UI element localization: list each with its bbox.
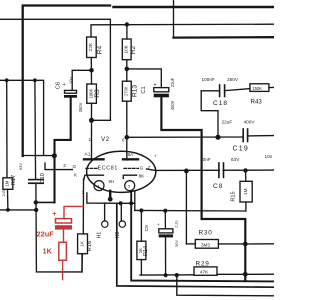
wire: link anode1 to y19 rail [92,119,111,121]
resistor R3 [87,84,97,103]
wire: thick C6-bottom zigzag to grid node [55,98,71,203]
capacitor C1 plate bottom (solid) [154,94,169,98]
wire: R17 bottom lead [7,189,9,210]
svg-text:1K: 1K [43,247,53,256]
white gap for C8 [220,168,222,173]
svg-text:100K: 100K [88,88,93,98]
terminal H8 lead [120,203,122,221]
wire: node line to right edge [245,243,274,245]
cathode1 lead to R16 [82,179,84,234]
svg-text:R15: R15 [230,191,236,201]
wire: thick top-left L rail [23,6,110,157]
svg-text:10n: 10n [265,154,273,159]
resistor R13 [122,81,131,101]
wire: thick top-right rail [114,6,275,8]
svg-text:100nF: 100nF [202,77,215,82]
red wire cap to resistor [63,230,65,243]
resistor R29 [194,267,217,275]
svg-text:H8: H8 [115,232,121,239]
heater circle pin4 [94,181,104,191]
svg-text:150K: 150K [252,86,262,91]
svg-text:1M: 1M [5,180,10,186]
resistor R2 [122,39,131,60]
terminal H8 circle [119,221,125,227]
output line 1 (anode2) [127,136,243,138]
capacitor C8 plate left [218,163,220,177]
svg-text:+: + [154,83,157,89]
svg-text:270K: 270K [124,86,129,96]
capacitor C9 plate bottom (solid) [159,234,173,237]
wire: R30 left lead [186,243,195,245]
node dot C9 [163,209,167,213]
node dot output1 [215,135,220,140]
svg-text:8K: 8K [139,173,146,178]
svg-text:47K: 47K [200,270,209,275]
red capacitor 22uF plate top [56,219,72,223]
grid G2 dashed [124,167,139,169]
svg-text:R16: R16 [87,241,93,252]
svg-text:22uF: 22uF [222,119,233,124]
wire: R29 right lead [217,273,245,275]
svg-text:C10: C10 [40,173,46,184]
wire: branch to C6 [72,70,91,90]
wire: R13 to anode2 [126,101,128,160]
grid G1 dashed [86,167,99,169]
svg-text:+: + [63,82,66,88]
node dot input/feedback junction [52,153,57,158]
anode A1 plate bar [84,158,104,160]
resistor R30 [195,240,218,249]
terminal H1 lead [104,203,106,221]
svg-text:50V: 50V [175,240,179,247]
svg-text:1: 1 [89,137,92,142]
wire: thick C1 bottom zigzag down to bottom rail [161,98,245,281]
node dot output2 left [184,169,189,174]
resistor R14 [137,241,146,259]
anode A2 plate bar [123,158,138,160]
node dot on left rail [5,78,9,82]
wire: thick rail y37.6 [174,36,275,39]
svg-text:8A: 8A [128,152,135,158]
cathode K2 [123,175,136,178]
wire: R4 to R3 lead [90,58,92,85]
svg-text:63V: 63V [18,163,23,170]
heater wiring line below tube [87,193,135,203]
svg-text:22K: 22K [88,42,94,51]
svg-text:R17: R17 [11,175,17,185]
svg-text:ECC81: ECC81 [98,165,119,171]
wire: cathode2 node line [135,209,246,212]
red capacitor 22uF plate bottom (solid) [55,225,72,229]
svg-text:R13: R13 [132,85,139,97]
svg-text:C18: C18 [213,100,228,107]
node dot R2/R13/C1 junction [125,67,130,72]
svg-text:R43: R43 [251,99,263,106]
wire: Z-link from output1 up to C18 [201,91,218,137]
wire: rail to R2 [126,25,128,40]
svg-text:350V: 350V [78,102,83,112]
svg-text:3M3: 3M3 [201,242,210,247]
node dot R29 right [243,272,248,277]
svg-text:R14: R14 [143,246,149,256]
terminal H1 circle [102,221,108,227]
wire: output2 down to R30 [185,171,187,244]
wire: thin supply rail y24.7 [91,24,274,37]
svg-text:+: + [52,209,57,218]
wire: vertical x6.7 rail to R17 [6,80,8,178]
node dot C9 bottom [164,273,168,277]
wire: R43 to right edge [269,86,274,88]
heater stub blob [108,197,113,202]
node dot on left rail at C10 column [33,78,37,82]
node dot output2 right [243,168,247,172]
wire: C18 right to R43 [225,89,250,91]
wire: K2 lead down [134,191,136,211]
node dot H8 [119,201,123,205]
capacitor C10 top lead [34,155,36,178]
wire: R3 to anode1 [91,103,93,159]
output line 2 (grid2) [147,169,275,171]
node dot anode2 / output1 [125,135,130,140]
svg-text:H1: H1 [97,232,103,239]
svg-text:G: G [73,164,77,169]
svg-text:+: + [154,155,157,160]
tube V2 envelope [87,151,156,192]
capacitor C9 plate top [159,229,173,233]
svg-text:G: G [140,165,144,170]
wire: grid1 line with stub [45,163,73,170]
svg-text:400V: 400V [244,119,256,124]
wire: C10 bottom down to ground U [36,184,82,272]
capacitor C8 plate right [223,163,225,177]
heater center stub [109,191,111,198]
svg-text:V2: V2 [101,136,110,143]
wire: vertical x35 from rail to input line [34,80,37,155]
svg-text:C6: C6 [56,82,62,89]
node dot feedback/C10 [34,200,38,204]
svg-text:22uF: 22uF [37,230,55,239]
wire: R14 top lead [140,211,142,242]
svg-text:240: 240 [2,190,6,196]
wire: line to left edge y209.9 [0,209,36,211]
resistor R17 [3,178,13,190]
cathode K1 [84,175,104,180]
node dot R17 bottom junction [6,208,10,212]
wire: bottom node line L1 [140,274,194,276]
svg-text:22uF: 22uF [170,77,175,87]
svg-text:1M: 1M [243,188,248,195]
capacitor C6 plate top [65,90,77,93]
red resistor 1K body [59,242,67,260]
wire: R15 bottom lead [245,202,247,211]
svg-text:C8: C8 [213,183,223,190]
svg-text:10K: 10K [124,44,129,53]
capacitor C18 plate left [219,85,221,97]
svg-text:+: + [157,223,160,228]
capacitor C10 plate bottom [28,182,44,184]
resistor R15 [240,181,252,202]
wire: R14 bottom lead [140,260,142,275]
wire: heater rail2 from between terminals [117,204,274,287]
wire: rail3 from L1 dot [177,275,274,296]
svg-text:C9: C9 [144,225,150,232]
node dot C10/R17 line [34,208,38,212]
wire: pin5 column down to bottom rail1 [131,191,274,281]
node dot R14 [139,208,143,212]
capacitor C6 plate bottom (solid) [64,95,77,98]
wire: R29 node to right edge [245,273,274,275]
svg-text:R2: R2 [130,45,137,54]
red modification network [37,206,84,279]
wire: R16 bottom lead [81,254,83,272]
node A: dot R4/R3/C6 junction [89,68,94,73]
resistor R43 [250,84,269,92]
svg-text:R3: R3 [94,89,101,98]
svg-text:C19: C19 [233,146,249,153]
wire: R2 to R13 [126,60,128,81]
svg-text:400V: 400V [170,100,175,110]
svg-text:2,2u: 2,2u [174,220,178,227]
red wire to cathode [64,206,83,218]
svg-text:6: 6 [122,138,125,143]
wire: C19 to right edge [248,135,274,137]
wire: input line y155.5 [23,155,55,157]
node dot heater rail3 branch [175,273,179,277]
node dot pin5 column [129,201,133,205]
svg-text:10u: 10u [68,76,73,84]
wire: thin rail y19 with corner down to anode1 link [0,19,110,120]
wire: R30 right lead [218,243,245,245]
wire: vertical drop to thick rail right [173,0,175,38]
wire: C9 bottom lead [165,237,167,275]
red wire below resistor [62,260,64,279]
svg-text:C1: C1 [141,86,147,93]
resistor R4 [87,37,97,58]
svg-text:R30: R30 [199,229,213,236]
capacitor C19 plate left [242,129,244,142]
capacitor C19 plate right [247,129,249,142]
svg-text:10nF: 10nF [200,157,211,162]
capacitor C18 plate right [224,85,226,97]
node dot on supply rail [125,22,129,26]
capacitor C10 plate top [28,179,44,181]
wire: R15 top lead [245,170,247,181]
wire: C18 left [201,90,219,92]
svg-text:63V: 63V [231,157,240,162]
node dot anode1 junction [89,118,94,123]
node dot R30 right [243,242,248,247]
svg-text:2: 2 [63,163,66,168]
svg-text:A1: A1 [85,152,91,158]
svg-text:R4: R4 [97,45,104,54]
heater circle pin5 [125,181,135,191]
svg-text:250V: 250V [227,77,239,82]
capacitor C9 top lead [164,211,166,229]
svg-text:9H: 9H [109,179,114,184]
wire: left horizontal rail y80 [0,80,44,155]
svg-text:1K: 1K [79,240,84,247]
wire: branch to C1 [127,69,162,88]
resistor R16 [78,234,88,254]
wire: link thick vertical to C10 column [36,201,55,203]
capacitor C1 plate top [154,88,169,92]
